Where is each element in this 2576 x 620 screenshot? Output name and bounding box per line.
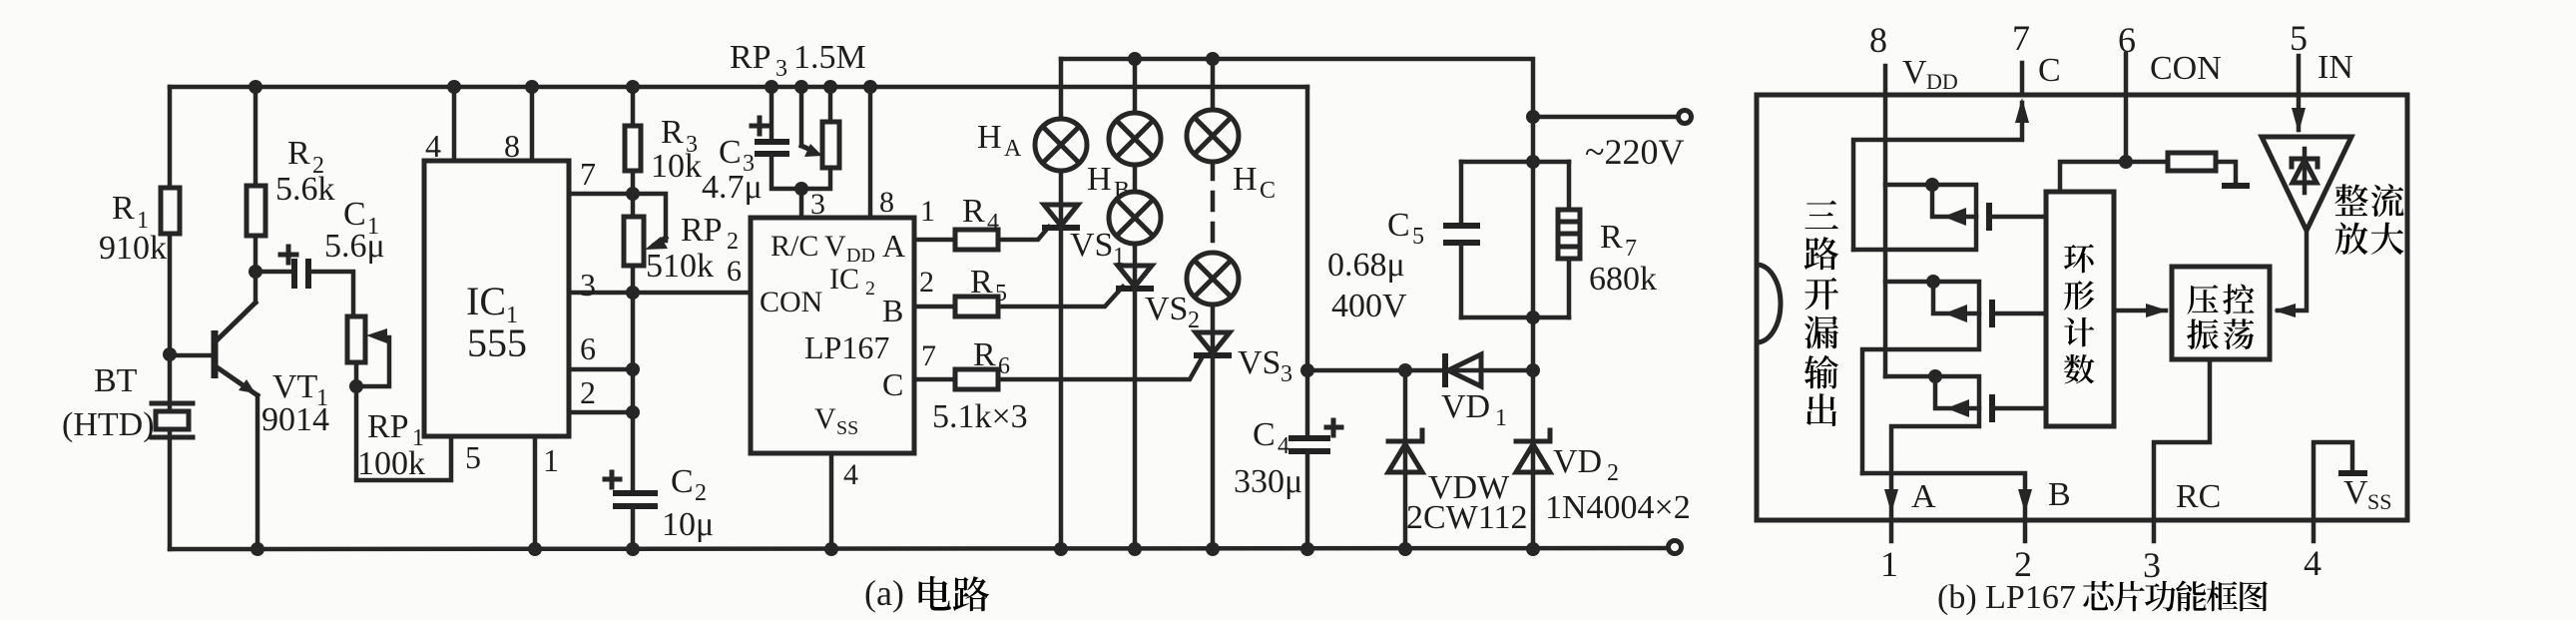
svg-text:400V: 400V [1331, 288, 1407, 324]
svg-text:(b) LP167: (b) LP167 [1937, 579, 2076, 616]
svg-text:IC: IC [829, 263, 859, 296]
node M2 drain [1926, 275, 1940, 289]
svg-text:CON: CON [760, 286, 822, 318]
wire ring counter to VCO arrow [2114, 304, 2168, 317]
label VT1 [272, 368, 328, 411]
wire IC2 pin 8 [868, 87, 873, 218]
svg-text:0.68μ: 0.68μ [1327, 247, 1405, 284]
label C1 plus [280, 247, 296, 263]
svg-text:B: B [2048, 476, 2071, 513]
label VDD [1902, 54, 1958, 94]
wire DC column [1531, 162, 1536, 370]
svg-text:VD: VD [1441, 388, 1490, 425]
capacitor C4 [1288, 438, 1330, 549]
ground VSS bar [2338, 470, 2367, 476]
svg-text:R: R [973, 336, 996, 373]
wire base [170, 353, 212, 358]
svg-text:B: B [882, 293, 903, 328]
svg-text:555: 555 [467, 320, 527, 365]
wire C5 R7 bottom link [1461, 315, 1569, 320]
zener inside amplifier [2292, 149, 2318, 193]
svg-text:2: 2 [865, 278, 875, 300]
label R2 [287, 135, 324, 179]
svg-text:1N4004×2: 1N4004×2 [1545, 489, 1691, 526]
wire IC1 pin 8 [530, 87, 535, 161]
svg-text:C: C [719, 134, 742, 171]
svg-text:R: R [287, 135, 310, 172]
svg-text:VS: VS [1070, 227, 1113, 264]
label VD1 [1441, 388, 1507, 431]
resistor R6 [955, 369, 998, 389]
node C2 ground [626, 542, 640, 556]
label C5 [1387, 207, 1424, 250]
op-amp U2 IC2 LP167 box [751, 218, 914, 453]
wire HA column [1059, 59, 1064, 119]
label IC2 [829, 263, 875, 300]
label C2 plus [605, 472, 620, 487]
caption (b) LP167 functional block diagram [1937, 579, 2268, 616]
node pin1 ground [528, 542, 542, 556]
label C2 [671, 463, 707, 506]
resistor internal [2126, 153, 2236, 184]
label VS3 [1238, 344, 1292, 387]
svg-text:H: H [1233, 161, 1258, 198]
node R2 top [249, 80, 262, 94]
wire RP3 wiper [801, 87, 822, 157]
svg-text:VD: VD [1553, 443, 1602, 480]
wire VDD internal column [1883, 95, 1888, 376]
op-amp rectifier triangle [2262, 137, 2351, 231]
label R5 [970, 264, 1007, 307]
label C1 [343, 196, 379, 240]
svg-text:V: V [1902, 54, 1927, 91]
node pin7 R3 RP2 junction [626, 187, 640, 201]
node C3 RP3 pin3 junction [794, 182, 808, 196]
svg-text:4.7μ: 4.7μ [702, 169, 763, 206]
svg-text:1: 1 [1880, 544, 1898, 584]
svg-text:2: 2 [2014, 544, 2032, 584]
wire IC2 pin 4 [829, 453, 834, 549]
svg-text:5: 5 [995, 281, 1007, 307]
node HB rail [1128, 52, 1142, 66]
label HA [977, 119, 1022, 162]
svg-text:6: 6 [580, 330, 596, 366]
node R3 rail [626, 80, 640, 94]
wire output C [914, 356, 1203, 379]
thyristor VS2 [1116, 266, 1154, 289]
wire HA to VS1 [1059, 171, 1064, 228]
svg-text:3: 3 [1281, 361, 1292, 387]
resistor R7 [1558, 162, 1580, 317]
svg-text:7: 7 [921, 339, 936, 372]
wire bottom ground rail (a) [170, 548, 1668, 549]
thyristor VS1 [1042, 205, 1080, 228]
node pin6 column junction [626, 362, 640, 376]
transistor M2 [1862, 282, 2046, 473]
svg-text:8: 8 [879, 186, 894, 219]
node VDW ground [1398, 542, 1412, 556]
lamp HA [1035, 119, 1087, 171]
label VSS [2343, 474, 2391, 514]
label R1 [112, 190, 149, 234]
svg-text:5: 5 [465, 439, 481, 475]
svg-text:1: 1 [543, 442, 559, 478]
pin 8 stub [1883, 66, 1888, 95]
node RP3 top rail [823, 80, 837, 94]
svg-text:CON: CON [2150, 50, 2222, 87]
terminal ~220V bottom [1669, 541, 1682, 554]
wire CON internal [2124, 95, 2129, 162]
svg-text:VS: VS [1145, 291, 1188, 327]
node base junction [163, 347, 177, 361]
node IC2 pin8 rail [863, 80, 877, 94]
resistor R5 [955, 297, 998, 316]
wire VS3 cathode column [1211, 355, 1216, 549]
svg-text:2: 2 [1607, 460, 1619, 486]
node VD2 ground [1526, 542, 1540, 556]
svg-text:~220V: ~220V [1585, 132, 1684, 172]
svg-text:C: C [671, 463, 694, 500]
pin 7 stub [2020, 63, 2025, 95]
lamp HB upper [1109, 113, 1161, 165]
svg-text:H: H [977, 119, 1002, 156]
svg-text:R: R [1600, 219, 1623, 256]
label RP2 [681, 212, 739, 255]
pin 6 stub [2124, 54, 2129, 95]
svg-text:V: V [814, 402, 836, 435]
node pin8 rail [525, 80, 539, 94]
svg-text:2: 2 [727, 229, 739, 255]
wire HC column [1211, 59, 1216, 110]
capacitor C1 [256, 259, 353, 316]
svg-text:RP: RP [681, 212, 723, 249]
lamp HB lower [1109, 192, 1161, 244]
svg-text:680k: 680k [1589, 261, 1657, 298]
node pin4 rail [447, 80, 461, 94]
label R3 [661, 114, 698, 158]
wire pin 4 VSS [2314, 442, 2352, 541]
svg-text:SS: SS [2367, 489, 2391, 514]
wire VS1 cathode column [1059, 228, 1064, 549]
ground internal bar [2222, 183, 2250, 189]
node VD2 top [1526, 363, 1540, 377]
svg-text:R: R [970, 264, 993, 301]
op-amp IC1 555 box [424, 161, 569, 436]
svg-text:4: 4 [1278, 433, 1289, 459]
svg-text:LP167: LP167 [804, 329, 889, 365]
svg-text:5: 5 [2290, 18, 2308, 58]
svg-text:R: R [112, 190, 135, 227]
node IC2 pin4 ground [824, 542, 838, 556]
wire HB to VS2 [1133, 244, 1138, 289]
wire CON to ring counter [2060, 162, 2126, 192]
svg-text:(a): (a) [864, 573, 904, 613]
block VCO [2172, 267, 2270, 359]
node VDW branch [1398, 363, 1412, 377]
label VD2 [1553, 443, 1619, 486]
svg-text:6: 6 [2118, 20, 2136, 60]
wire pin B drop [1862, 473, 2032, 541]
label RP3 1.5M [730, 39, 866, 82]
wire IN arrow [2292, 95, 2306, 133]
label rectifier amplifier [2335, 184, 2404, 255]
label R6 [973, 336, 1010, 379]
svg-text:3: 3 [775, 56, 787, 82]
terminal ~220V top [1679, 111, 1692, 124]
wire pin A arrow [1884, 489, 1898, 513]
resistor R4 [955, 230, 998, 250]
transistor M1 [1853, 185, 2046, 250]
wire IC1 pin 3 to IC2 CON [569, 291, 751, 296]
svg-text:BT: BT [94, 362, 138, 399]
piezo BT [152, 403, 193, 437]
svg-text:2: 2 [580, 374, 596, 410]
transistor Q1 VT1 [215, 272, 258, 549]
svg-text:8: 8 [504, 128, 520, 164]
wire C5 R7 top link [1461, 160, 1569, 165]
svg-text:910k: 910k [99, 230, 167, 267]
label ring counter (vertical) [2064, 245, 2094, 384]
potentiometer RP3 [801, 87, 839, 189]
svg-text:7: 7 [1625, 236, 1637, 262]
block ring counter [2046, 192, 2114, 426]
resistor R3 [625, 87, 641, 217]
wire VCO to RC pin [2154, 359, 2210, 541]
wire IC1 pin 7 [569, 192, 633, 197]
wire 220V down [1531, 117, 1536, 162]
wire C internal feedback [1853, 98, 2029, 250]
wire left vertical branch [168, 87, 173, 549]
svg-text:5.6μ: 5.6μ [324, 228, 385, 265]
node M1 drain [1925, 178, 1939, 192]
label VDD [824, 230, 875, 267]
svg-text:3: 3 [580, 267, 596, 303]
wire output B [914, 287, 1123, 307]
wire VD1 to node [1481, 368, 1533, 373]
node 220V branch [1526, 110, 1540, 124]
node M3 drain [1928, 369, 1942, 383]
wire VS2 cathode column [1133, 289, 1138, 549]
svg-text:VT: VT [272, 368, 318, 405]
label C3 plus [752, 118, 768, 134]
node pin2 column junction [626, 405, 640, 419]
node DC node [1300, 363, 1314, 377]
wire HC dashed link [1211, 162, 1216, 253]
svg-text:V: V [2343, 474, 2368, 511]
wire top supply rail (a) [170, 85, 1307, 90]
label HB [1087, 161, 1130, 204]
svg-text:R: R [962, 193, 985, 230]
svg-text:4: 4 [425, 128, 441, 164]
wire supply rail corner down [1305, 87, 1310, 435]
svg-text:7: 7 [2012, 18, 2030, 58]
resistor R1 [161, 188, 180, 234]
pin 5 stub [2297, 56, 2302, 95]
lamp HC upper [1187, 110, 1239, 162]
svg-text:10k: 10k [651, 148, 702, 185]
svg-text:C: C [1253, 416, 1276, 453]
svg-text:RP: RP [367, 408, 409, 445]
svg-text:2CW112: 2CW112 [1406, 499, 1528, 536]
node HC rail [1206, 52, 1220, 66]
wire HB column [1133, 59, 1138, 113]
svg-text:H: H [1087, 161, 1112, 198]
svg-text:VS: VS [1238, 344, 1281, 381]
node C5 R7 top [1526, 155, 1540, 169]
wire upper 220V rail [1061, 59, 1533, 117]
label RP1 [367, 408, 424, 451]
svg-text:7: 7 [580, 156, 596, 192]
node C5 R7 bottom [1526, 310, 1540, 324]
label C4 plus [1326, 420, 1341, 435]
zener VD2 [1516, 370, 1550, 549]
svg-text:5.1k×3: 5.1k×3 [932, 398, 1028, 435]
svg-text:IN: IN [2318, 49, 2353, 86]
svg-text:6: 6 [727, 255, 742, 288]
svg-text:1.5M: 1.5M [793, 39, 866, 76]
label HC [1233, 161, 1276, 204]
svg-text:C: C [2038, 52, 2061, 89]
potentiometer RP1 [347, 316, 451, 480]
label VCO [2187, 284, 2254, 349]
svg-text:5: 5 [1412, 224, 1424, 250]
capacitor C5 [1443, 162, 1480, 317]
svg-text:6: 6 [998, 353, 1010, 379]
svg-text:2: 2 [695, 480, 707, 506]
svg-text:IC: IC [466, 279, 506, 323]
wire output A [914, 227, 1049, 240]
capacitor C2 [613, 493, 658, 549]
svg-text:V: V [824, 230, 846, 263]
wire to AC terminal [1533, 115, 1679, 120]
label VS2 [1145, 291, 1200, 333]
thyristor VS3 [1194, 332, 1232, 355]
svg-text:RP: RP [730, 39, 772, 76]
chip LP167 package outline [1757, 95, 2407, 520]
resistor R2 [247, 87, 265, 272]
node C4 ground [1300, 542, 1314, 556]
zener VDW [1388, 370, 1422, 549]
node RP1 wiper junction [349, 379, 363, 393]
label VSS [814, 402, 858, 439]
svg-text:4: 4 [2304, 543, 2321, 583]
node pin3 column junction [626, 286, 640, 300]
svg-text:1: 1 [1495, 405, 1507, 431]
diode VD1 [1445, 353, 1481, 387]
svg-text:A: A [882, 228, 905, 264]
capacitor C3 [755, 87, 801, 189]
svg-text:3: 3 [2143, 545, 2161, 585]
node VS2 ground [1128, 542, 1142, 556]
wire IC2 pin 3 [799, 189, 804, 218]
label three-way open-drain output (vertical) [1804, 201, 1839, 426]
svg-text:330μ: 330μ [1234, 463, 1302, 500]
wire HC to VS3 [1211, 305, 1216, 355]
svg-text:C: C [1387, 207, 1410, 244]
node VS1 ground [1054, 542, 1068, 556]
svg-text:2: 2 [1188, 308, 1200, 333]
wire IC1 pin 2 [569, 410, 633, 415]
chip notch [1757, 265, 1781, 342]
svg-text:510k: 510k [646, 248, 714, 285]
svg-text:R/C: R/C [771, 230, 818, 263]
svg-text:100k: 100k [357, 445, 425, 482]
svg-text:C: C [1260, 178, 1276, 204]
node VS3 ground [1206, 542, 1220, 556]
node emitter-ground [251, 542, 264, 556]
node C3 rail [765, 80, 778, 94]
label IC1 [466, 279, 518, 328]
svg-text:2: 2 [919, 266, 934, 299]
svg-text:8: 8 [1869, 20, 1887, 60]
node CON junction [2119, 155, 2133, 169]
svg-text:SS: SS [836, 417, 858, 439]
svg-text:1: 1 [920, 195, 935, 228]
label C3 [719, 134, 755, 177]
svg-text:10μ: 10μ [662, 506, 714, 543]
lamp HC lower [1187, 253, 1239, 305]
caption (a) circuit [864, 573, 989, 613]
wire IC1 pin 4 [452, 87, 457, 161]
wire DC link [1307, 368, 1445, 373]
svg-text:9014: 9014 [261, 401, 329, 438]
wire HB link [1133, 165, 1138, 192]
svg-text:C: C [882, 366, 903, 402]
label R4 [962, 193, 999, 236]
node RP3 wiper rail [794, 80, 808, 94]
svg-text:RC: RC [2176, 478, 2221, 515]
wire IC1 pin 6 [569, 367, 633, 372]
wire amp output to VCO [2274, 231, 2307, 317]
node collector C1 junction [249, 265, 262, 279]
potentiometer RP2 [624, 194, 668, 491]
svg-text:5.6k: 5.6k [275, 171, 335, 208]
svg-text:4: 4 [987, 210, 999, 236]
svg-text:4: 4 [843, 458, 858, 491]
label C4 [1253, 416, 1289, 459]
wire IC1 pin 1 [533, 436, 538, 549]
label VS1 [1070, 227, 1125, 270]
label R7 [1600, 219, 1637, 262]
svg-text:A: A [1004, 136, 1022, 162]
transistor M3 [1885, 376, 2046, 541]
svg-text:(HTD): (HTD) [62, 406, 155, 443]
svg-text:DD: DD [1926, 69, 1958, 94]
svg-text:R: R [661, 114, 684, 151]
svg-text:A: A [1911, 478, 1936, 515]
